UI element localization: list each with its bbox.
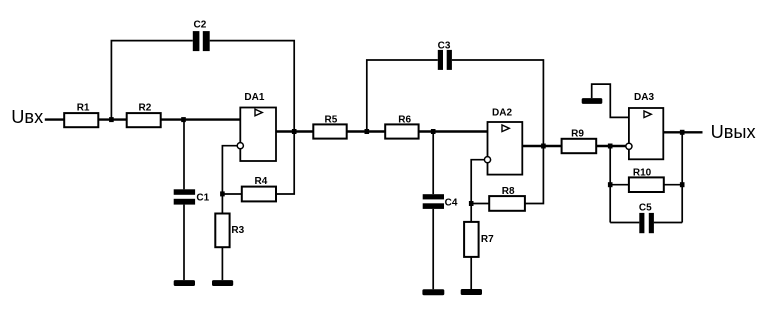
ground below C4 [422, 289, 444, 295]
wire C3 right down to DA2 output and R8 [452, 60, 544, 204]
junction node B [181, 117, 186, 122]
junction DA3 output [680, 130, 685, 135]
resistor R1 [64, 113, 98, 127]
wire right rail output down to C5 [681, 132, 683, 222]
resistor R9 [562, 139, 597, 153]
capacitor C4 [423, 194, 444, 209]
wire node C up to C3 [367, 60, 438, 132]
ground at DA3 noninverting input [582, 98, 603, 104]
wire node to R8 left [471, 203, 489, 205]
svg-text:R10: R10 [633, 168, 652, 179]
wire DA1 output to R5 [276, 130, 313, 132]
svg-text:DA3: DA3 [634, 92, 654, 103]
wire C4 to ground [432, 209, 434, 289]
wire C5 right lead [654, 222, 682, 224]
svg-text:C5: C5 [639, 203, 652, 214]
svg-text:R1: R1 [77, 102, 90, 113]
svg-text:R4: R4 [255, 176, 268, 187]
capacitor C1 [174, 189, 195, 204]
wire node D down to C4 [432, 132, 434, 195]
wire node to R4 left [222, 193, 241, 195]
svg-text:R9: R9 [571, 129, 584, 140]
junction node A [109, 117, 114, 122]
junction node D [431, 129, 436, 134]
wire R10 right lead [664, 184, 682, 186]
junction R10 right [680, 182, 685, 187]
svg-text:Uвых: Uвых [711, 122, 756, 142]
capacitor C5 [639, 213, 654, 233]
wire R7 to ground [470, 257, 472, 289]
junction DA2 output [541, 144, 546, 149]
wire R2 to DA1 input [161, 118, 241, 120]
svg-text:C3: C3 [438, 40, 451, 51]
resistor R3 [215, 214, 229, 248]
wire R6 to DA2 input [419, 130, 488, 132]
junction R4 R3 node [220, 191, 225, 196]
wire DA2 output to R9 to DA3 inverting input [522, 145, 625, 147]
svg-text:Uвх: Uвх [11, 107, 43, 127]
svg-text:R6: R6 [398, 114, 411, 125]
wire C2 right down to DA1 output and R4 [210, 41, 295, 194]
wire DA1 inverting input to R4/R3 node [222, 146, 237, 214]
resistor R5 [313, 124, 346, 138]
wire R5 to R6 [347, 130, 386, 132]
wire R3 to ground [221, 247, 223, 280]
svg-text:R2: R2 [139, 102, 152, 113]
junction R10 left [608, 182, 613, 187]
wire C1 to ground [183, 205, 185, 281]
wire DA3 output to Uvyh [663, 131, 702, 133]
resistor R2 [127, 113, 161, 127]
wire node A up to C2 [111, 41, 192, 120]
wire node B down to C1 [183, 120, 185, 190]
svg-text:C1: C1 [196, 193, 209, 204]
wire DA2 inverting input to R8/R7 node [471, 160, 484, 222]
junction node C [365, 129, 370, 134]
junction R8 R7 node [469, 201, 474, 206]
wire C5 left lead [610, 222, 639, 224]
svg-text:C4: C4 [445, 198, 458, 209]
op-amp DA1 [237, 108, 276, 162]
ground below C1 [174, 280, 195, 286]
ground below R3 [212, 280, 233, 286]
resistor R8 [489, 196, 525, 211]
resistor R6 [385, 124, 418, 138]
wire R10 left lead [610, 184, 629, 186]
svg-text:R3: R3 [231, 225, 244, 236]
svg-text:R7: R7 [481, 234, 494, 245]
op-amp DA3 [626, 108, 664, 159]
svg-text:C2: C2 [194, 20, 207, 31]
capacitor C2 [193, 31, 210, 51]
node Uvx input lead [45, 118, 64, 120]
resistor R4 [242, 187, 276, 202]
junction DA1 output [292, 129, 297, 134]
wire left rail R9 node down to C5 [609, 146, 611, 223]
junction R9 right [608, 144, 613, 149]
svg-text:R8: R8 [502, 186, 515, 197]
wire ground hook to DA3 noninverting input [592, 84, 629, 117]
capacitor C3 [438, 50, 452, 70]
svg-text:DA2: DA2 [492, 107, 512, 118]
wire R1 to R2 [98, 118, 126, 120]
resistor R10 [629, 177, 664, 192]
ground below R7 [461, 289, 482, 295]
resistor R7 [464, 222, 479, 257]
op-amp DA2 [484, 122, 522, 175]
svg-text:R5: R5 [325, 114, 338, 125]
svg-text:DA1: DA1 [244, 92, 264, 103]
